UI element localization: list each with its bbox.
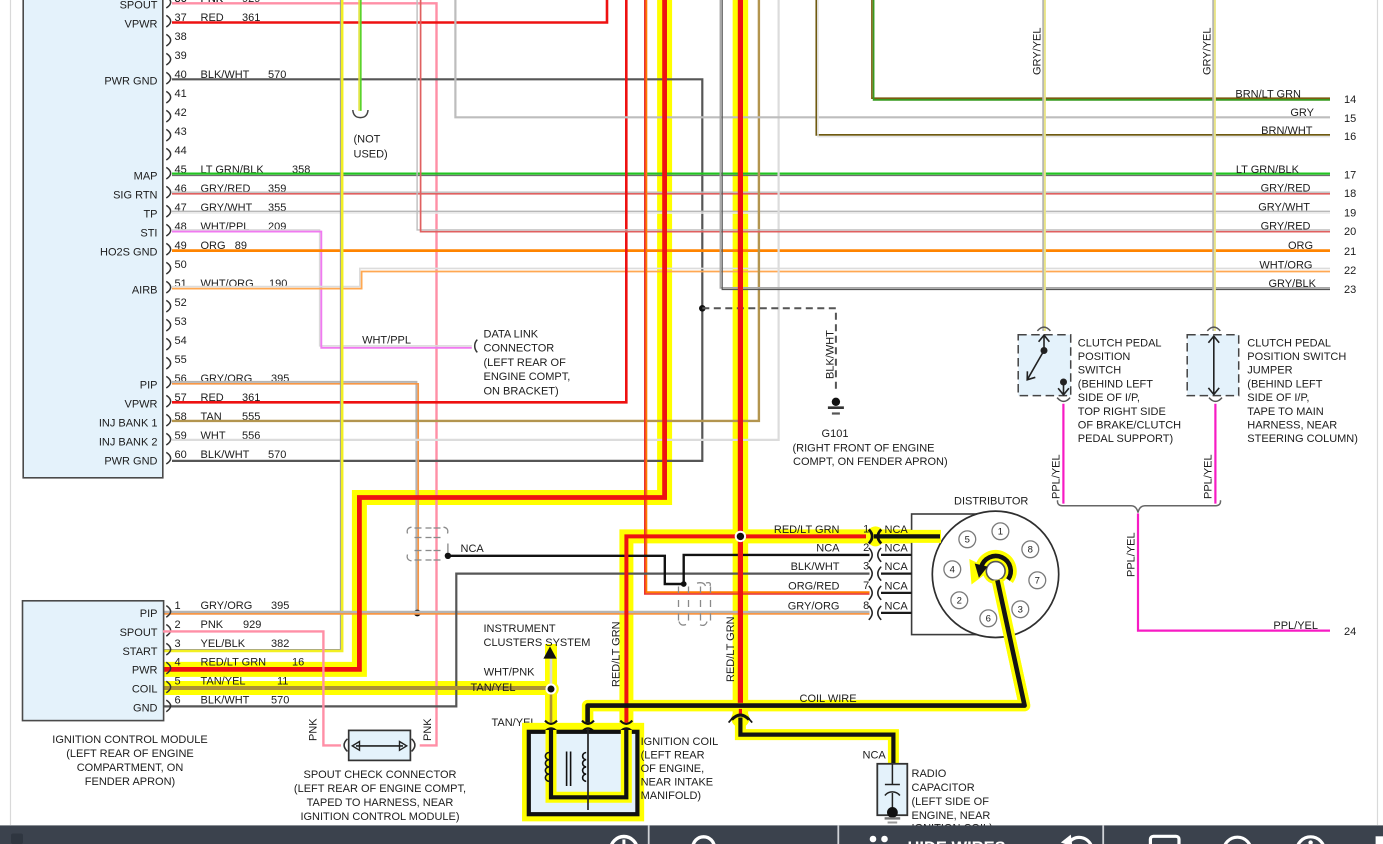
svg-text:GRY/RED: GRY/RED	[1261, 220, 1311, 232]
svg-text:COMPARTMENT, ON: COMPARTMENT, ON	[77, 762, 184, 774]
svg-text:OF ENGINE,: OF ENGINE,	[641, 763, 705, 775]
distributor pin1 bracket (bold)	[869, 529, 872, 543]
svg-text:BLK/WHT: BLK/WHT	[791, 561, 840, 573]
connector: ignition control module	[23, 601, 164, 721]
svg-text:570: 570	[271, 695, 289, 707]
wire ORG/RED (to distributor pin 7)	[645, 0, 870, 594]
svg-text:RED/LT GRN: RED/LT GRN	[611, 621, 623, 687]
wire GRY/YEL right (to clutch switch jumper)	[1212, 0, 1214, 331]
PCM pin name labels	[99, 0, 158, 467]
svg-text:15: 15	[1344, 113, 1356, 125]
exit cap below jumper	[1209, 398, 1222, 402]
right edge wire labels and numbers 14-23	[1235, 89, 1356, 296]
junction dot on B at pin1 net	[735, 531, 746, 542]
svg-text:(BEHIND LEFT: (BEHIND LEFT	[1247, 378, 1322, 390]
svg-text:COIL: COIL	[132, 684, 158, 696]
inline connector symbol (dashed) over ORG/RED and GRY/ORG rows	[679, 583, 711, 626]
svg-text:GND: GND	[133, 703, 158, 715]
svg-text:COIL WIRE: COIL WIRE	[800, 693, 857, 705]
wire TAN 555 (pin58, corner up x759)	[172, 0, 759, 421]
svg-text:WHT/PNK: WHT/PNK	[484, 667, 535, 679]
svg-text:NCA: NCA	[885, 561, 909, 573]
spout connector double arrow	[356, 745, 403, 747]
distributor cap circle	[932, 511, 1058, 637]
svg-text:PWR: PWR	[132, 665, 158, 677]
svg-text:PNK: PNK	[201, 0, 224, 5]
wire BLK/WHT dashed to G101	[702, 308, 836, 391]
svg-text:CLUSTERS SYSTEM: CLUSTERS SYSTEM	[484, 637, 591, 649]
svg-text:SPOUT: SPOUT	[120, 627, 158, 639]
svg-text:PPL/YEL: PPL/YEL	[1273, 620, 1318, 632]
svg-text:23: 23	[1344, 284, 1356, 296]
wire PPL/YEL from clutch switch	[1062, 404, 1064, 504]
svg-text:ORG/RED: ORG/RED	[788, 580, 839, 592]
svg-text:BLK/WHT: BLK/WHT	[825, 330, 837, 379]
svg-text:395: 395	[271, 600, 289, 612]
wire GRY/YEL left (to clutch pedal position switch)	[1042, 0, 1044, 331]
svg-text:5: 5	[175, 676, 181, 688]
clutch pedal position switch box	[1018, 335, 1070, 396]
svg-text:STI: STI	[140, 227, 157, 239]
wire RED/LT GRN core vertical B	[738, 0, 743, 703]
svg-text:55: 55	[175, 354, 187, 366]
svg-text:24: 24	[1344, 626, 1356, 638]
svg-text:FENDER APRON): FENDER APRON)	[85, 776, 175, 788]
coil wire core	[588, 580, 1025, 727]
toolbar wires icon dots	[870, 836, 877, 843]
svg-text:PPL/YEL: PPL/YEL	[1126, 532, 1138, 577]
highlight halo: coil-wire hop at capacitor tap	[731, 710, 749, 728]
svg-text:18: 18	[1344, 188, 1356, 200]
data link connector bracket	[475, 340, 478, 353]
wire GRY/BLK (edge 23)	[720, 0, 1330, 288]
svg-text:POSITION SWITCH: POSITION SWITCH	[1247, 351, 1346, 363]
svg-text:16: 16	[1344, 131, 1356, 143]
junction dot on NCA jog	[681, 581, 687, 587]
svg-text:39: 39	[175, 50, 187, 62]
ignition coil text	[641, 736, 719, 802]
svg-text:AIRB: AIRB	[132, 284, 158, 296]
clutch switch jumper text	[1247, 337, 1358, 445]
junction dot TAN/YEL / WHT/PNK	[546, 684, 557, 695]
svg-text:PPL/YEL: PPL/YEL	[1203, 454, 1215, 499]
radio capacitor text	[912, 768, 993, 835]
svg-text:GRY/ORG: GRY/ORG	[201, 600, 253, 612]
svg-text:16: 16	[292, 657, 304, 669]
ICM pin name labels	[120, 608, 158, 715]
coil secondary wire	[587, 728, 589, 810]
toolbar separators	[648, 825, 650, 844]
svg-text:CAPACITOR: CAPACITOR	[912, 782, 975, 794]
distributor pin brackets	[869, 548, 881, 620]
distributor body box	[912, 514, 996, 635]
svg-text:(LEFT REAR OF ENGINE: (LEFT REAR OF ENGINE	[66, 748, 194, 760]
junction dot BLK/WHT to G101	[699, 305, 706, 312]
svg-text:SIG RTN: SIG RTN	[113, 189, 157, 201]
distributor cap towers	[944, 523, 1046, 627]
svg-text:2: 2	[957, 596, 962, 607]
wire RED/LT GRN core (distributor pin1 net)	[626, 536, 866, 727]
svg-text:8: 8	[1028, 545, 1033, 556]
svg-text:RED/LT GRN: RED/LT GRN	[201, 657, 267, 669]
svg-text:PWR GND: PWR GND	[104, 75, 157, 87]
entry cap above jumper	[1207, 327, 1220, 331]
svg-text:NCA: NCA	[863, 750, 887, 762]
toolbar undo icon	[1067, 837, 1092, 844]
distributor pin labels	[774, 523, 908, 612]
wire TAN/YEL core (ICM pin5)	[163, 686, 551, 690]
instrument cluster arrow	[543, 646, 556, 658]
svg-text:SIDE OF I/P,: SIDE OF I/P,	[1078, 392, 1140, 404]
junction dot GRY/ORG	[414, 610, 421, 617]
svg-text:NCA: NCA	[885, 580, 909, 592]
svg-text:HIDE WIRES: HIDE WIRES	[908, 839, 1006, 844]
highlight halo: junction dot B	[732, 528, 748, 544]
SPOUT check connector text	[294, 769, 466, 823]
clutch switch text	[1078, 337, 1181, 445]
coil core bars	[566, 752, 568, 787]
highlight halo: RED/LT GRN vertical B x740	[733, 0, 749, 716]
diagram panel right edge line	[1377, 0, 1379, 825]
svg-text:50: 50	[175, 259, 187, 271]
svg-text:5: 5	[965, 535, 970, 546]
svg-text:21: 21	[1344, 246, 1356, 258]
svg-text:(LEFT REAR: (LEFT REAR	[641, 749, 705, 761]
svg-text:SWITCH: SWITCH	[1078, 365, 1121, 377]
wire LT GRN/YEL (not used)	[358, 0, 360, 111]
svg-text:TAPED TO HARNESS, NEAR: TAPED TO HARNESS, NEAR	[307, 797, 454, 809]
svg-text:SIDE OF I/P,: SIDE OF I/P,	[1247, 392, 1309, 404]
svg-text:G101: G101	[822, 428, 849, 440]
toolbar right edge fragment	[1376, 836, 1383, 844]
svg-text:TAN/YEL: TAN/YEL	[470, 682, 515, 694]
svg-text:GRY/YEL: GRY/YEL	[1202, 28, 1214, 76]
wire BRN/WHT (edge 16)	[816, 0, 1330, 135]
capacitor symbol	[885, 764, 900, 812]
wire BRN/LT GRN (edge 14)	[872, 0, 1330, 98]
svg-text:43: 43	[175, 126, 187, 138]
svg-text:3: 3	[175, 638, 181, 650]
svg-text:IGNITION COIL: IGNITION COIL	[641, 736, 719, 748]
svg-text:SPOUT CHECK CONNECTOR: SPOUT CHECK CONNECTOR	[303, 769, 456, 781]
svg-text:HO2S GND: HO2S GND	[100, 246, 158, 258]
rotor hub	[983, 558, 1009, 584]
svg-text:NEAR INTAKE: NEAR INTAKE	[641, 777, 714, 789]
svg-text:WHT/ORG: WHT/ORG	[1259, 259, 1312, 271]
wire GRY (edge 15)	[455, 0, 1330, 117]
svg-text:TP: TP	[143, 208, 157, 220]
svg-text:42: 42	[175, 107, 187, 119]
svg-text:IGNITION CONTROL MODULE: IGNITION CONTROL MODULE	[52, 734, 207, 746]
svg-text:44: 44	[175, 145, 187, 157]
wire RED 361 (pin37 VPWR, corner up x607)	[172, 0, 607, 23]
highlight halo: radio capacitor branch	[740, 712, 893, 765]
pin brackets and numbers, PCM connector pins 36-60	[166, 0, 186, 464]
entry cap above left switch	[1037, 327, 1050, 331]
svg-text:7: 7	[863, 580, 869, 592]
svg-text:COMPT, ON FENDER APRON): COMPT, ON FENDER APRON)	[793, 456, 948, 468]
svg-text:ENGINE COMPT,: ENGINE COMPT,	[484, 371, 571, 383]
distributor pin stubs	[881, 555, 912, 613]
svg-text:NCA: NCA	[885, 524, 909, 536]
svg-text:DATA LINK: DATA LINK	[484, 328, 539, 340]
svg-text:BLK/WHT: BLK/WHT	[201, 695, 250, 707]
highlight halo: distributor pin1 bracket	[867, 526, 885, 546]
wire BLK/WHT (ICM pin6 to distributor pin 3)	[163, 574, 870, 707]
svg-text:WHT/PPL: WHT/PPL	[362, 335, 411, 347]
svg-text:PEDAL SUPPORT): PEDAL SUPPORT)	[1078, 433, 1173, 445]
svg-text:4: 4	[175, 657, 181, 669]
svg-text:52: 52	[175, 297, 187, 309]
svg-text:PIP: PIP	[140, 379, 158, 391]
svg-text:570: 570	[268, 449, 286, 461]
rotor arrow halo wedge	[969, 559, 991, 585]
svg-text:PNK: PNK	[201, 619, 224, 631]
bottom toolbar	[0, 825, 1383, 844]
toolbar info icon	[1297, 837, 1325, 844]
svg-text:NCA: NCA	[885, 542, 909, 554]
svg-text:1: 1	[998, 527, 1003, 538]
NCA wire start stub and dot	[447, 544, 449, 553]
svg-text:TAN/YEL: TAN/YEL	[201, 676, 246, 688]
svg-text:929: 929	[243, 619, 261, 631]
wire GRY/RED 359 (pin46 to edge 18)	[172, 191, 1330, 193]
hop arc at capacitor tap	[732, 715, 749, 720]
svg-text:(BEHIND LEFT: (BEHIND LEFT	[1078, 378, 1153, 390]
wire PNK 929 (pin36 to SPOUT check connector right)	[172, 3, 437, 745]
svg-text:382: 382	[271, 638, 289, 650]
svg-text:NCA: NCA	[461, 543, 485, 555]
svg-text:(LEFT REAR OF ENGINE COMPT,: (LEFT REAR OF ENGINE COMPT,	[294, 783, 466, 795]
svg-text:36: 36	[175, 0, 187, 5]
svg-text:GRY/BLK: GRY/BLK	[1269, 278, 1317, 290]
svg-text:MAP: MAP	[134, 170, 158, 182]
svg-text:BRN/LT GRN: BRN/LT GRN	[1235, 89, 1301, 101]
svg-text:1: 1	[175, 600, 181, 612]
svg-text:CONNECTOR: CONNECTOR	[484, 343, 555, 355]
SPOUT check connector box	[349, 730, 411, 760]
exit cap below left switch	[1057, 398, 1070, 402]
coil entry connectors on top	[545, 721, 632, 732]
svg-text:NCA: NCA	[885, 600, 909, 612]
svg-text:2: 2	[175, 619, 181, 631]
svg-text:TOP RIGHT SIDE: TOP RIGHT SIDE	[1078, 406, 1166, 418]
wire ORG 89 (pin49 to edge 21)	[172, 249, 1330, 252]
svg-text:1: 1	[863, 523, 869, 535]
svg-text:19: 19	[1344, 207, 1356, 219]
svg-text:GRY/WHT: GRY/WHT	[1258, 202, 1310, 214]
wire YEL/BLK 382 (ICM pin3 up to top)	[163, 0, 340, 650]
jumper symbol (double arrow)	[1208, 336, 1219, 394]
wire WHT/PNK core	[550, 659, 553, 689]
svg-text:RADIO: RADIO	[912, 768, 947, 780]
svg-text:53: 53	[175, 316, 187, 328]
svg-text:PWR GND: PWR GND	[104, 455, 157, 467]
rotor arc (rotation arrow)	[981, 556, 1011, 580]
switch symbol inside	[1027, 335, 1069, 395]
wire GRY/ORG (ICM pin1 to distributor pin 8)	[163, 611, 870, 613]
ICM wire color texts	[201, 600, 305, 707]
coil primary circuit (TAN/YEL to RED/LT GRN)	[551, 728, 626, 797]
highlight halo: coil wire	[588, 580, 1025, 727]
PCM wire color and circuit number texts	[201, 0, 311, 461]
svg-text:JUMPER: JUMPER	[1247, 365, 1292, 377]
svg-text:(RIGHT FRONT OF ENGINE: (RIGHT FRONT OF ENGINE	[793, 442, 935, 454]
highlight halo: RED/LT GRN net A (vertical x664 + ICM pin4)	[163, 0, 665, 669]
svg-text:INJ BANK 2: INJ BANK 2	[99, 436, 158, 448]
svg-text:HARNESS, NEAR: HARNESS, NEAR	[1247, 420, 1337, 432]
svg-text:RED/LT GRN: RED/LT GRN	[774, 524, 840, 536]
svg-text:(LEFT SIDE OF: (LEFT SIDE OF	[912, 796, 990, 808]
rotor arc halo	[981, 556, 1011, 580]
svg-text:PNK: PNK	[422, 718, 434, 741]
svg-text:17: 17	[1344, 170, 1356, 182]
wire BLK/WHT 570 (pins 40+60, vertical x702)	[172, 79, 702, 461]
highlight halo: RED/LT GRN distributor pin1 net	[626, 536, 936, 727]
not-used end hook	[353, 110, 368, 118]
svg-text:22: 22	[1344, 265, 1356, 277]
ICM text block	[52, 734, 207, 788]
svg-text:STEERING COLUMN): STEERING COLUMN)	[1247, 433, 1358, 445]
ignition coil box	[529, 732, 638, 814]
toolbar icon circle 1	[611, 837, 638, 844]
distributor pin1 stub (highlighted)	[874, 534, 940, 538]
toolbar circle icon 3	[1224, 837, 1252, 844]
svg-text:CLUTCH PEDAL: CLUTCH PEDAL	[1247, 337, 1331, 349]
svg-text:6: 6	[175, 695, 181, 707]
coil secondary winding	[583, 753, 587, 782]
svg-text:PIP: PIP	[140, 608, 158, 620]
highlight halo: TAN/YEL ICM pin5 wire	[163, 681, 551, 695]
svg-text:SPOUT: SPOUT	[120, 0, 158, 11]
wire GRY/ORG 395 (pin56 down to junction x417)	[172, 382, 416, 612]
svg-text:INSTRUMENT: INSTRUMENT	[484, 623, 556, 635]
connector: PCM C1 (left, pins 36-60)	[23, 0, 163, 478]
toolbar left blob	[11, 834, 23, 844]
svg-text:4: 4	[950, 565, 955, 576]
coil wire diagonal halo (over distributor)	[997, 580, 1024, 706]
svg-text:PNK: PNK	[308, 718, 320, 741]
wire GRY/WHT 355 (pin47 to edge 19)	[172, 210, 1330, 212]
svg-text:VPWR: VPWR	[125, 18, 158, 30]
data link connector text	[484, 328, 571, 397]
wire WHT 556 (pin59, corner up x778.6)	[172, 0, 779, 440]
ground G101 symbol	[832, 398, 840, 406]
svg-text:LT GRN/BLK: LT GRN/BLK	[1236, 164, 1300, 176]
wire GRY/RED (edge 20)	[417, 0, 1330, 230]
svg-text:CLUTCH PEDAL: CLUTCH PEDAL	[1078, 337, 1162, 349]
svg-text:6: 6	[986, 614, 991, 625]
svg-text:41: 41	[175, 88, 187, 100]
svg-text:20: 20	[1344, 226, 1356, 238]
toolbar icon circle 2	[693, 837, 715, 844]
svg-text:OF BRAKE/CLUTCH: OF BRAKE/CLUTCH	[1078, 420, 1181, 432]
ICM pin brackets and numbers	[166, 600, 180, 712]
svg-text:IGNITION CONTROL MODULE): IGNITION CONTROL MODULE)	[300, 811, 459, 823]
svg-text:MANIFOLD): MANIFOLD)	[641, 790, 702, 802]
svg-text:TAPE TO MAIN: TAPE TO MAIN	[1247, 406, 1323, 418]
coil primary winding	[545, 753, 549, 782]
wire PPL/YEL from jumper	[1214, 404, 1216, 504]
coil primary circuit highlight	[551, 730, 626, 797]
wire PNK 929 (ICM pin2 to SPOUT check connector left)	[163, 631, 341, 745]
svg-text:(LEFT REAR OF: (LEFT REAR OF	[484, 357, 567, 369]
svg-text:GRY/ORG: GRY/ORG	[788, 600, 840, 612]
svg-text:GRY/YEL: GRY/YEL	[1032, 28, 1044, 76]
svg-text:RED/LT GRN: RED/LT GRN	[725, 616, 737, 682]
svg-text:54: 54	[175, 335, 187, 347]
svg-text:INJ BANK 1: INJ BANK 1	[99, 417, 158, 429]
wire WHT/PPL 209 (pin48 STI to data link connector)	[172, 230, 472, 346]
toolbar monitor icon	[1150, 836, 1179, 844]
svg-text:929: 929	[242, 0, 260, 5]
svg-text:ON BRACKET): ON BRACKET)	[484, 385, 559, 397]
ignition coil highlight outline	[526, 727, 641, 818]
svg-text:START: START	[122, 646, 157, 658]
distributor pin1 stub halo	[874, 530, 941, 543]
svg-text:DISTRIBUTOR: DISTRIBUTOR	[954, 496, 1028, 508]
svg-text:38: 38	[175, 31, 187, 43]
svg-text:7: 7	[1035, 576, 1040, 587]
svg-text:GRY/RED: GRY/RED	[1261, 183, 1311, 195]
capacitor ground dot and symbol	[887, 807, 898, 818]
svg-text:14: 14	[1344, 94, 1356, 106]
svg-text:USED): USED)	[354, 148, 388, 160]
svg-text:VPWR: VPWR	[125, 398, 158, 410]
wire LT GRN/BLK 358 (pin45 MAP to edge 17)	[172, 172, 1330, 174]
svg-text:PPL/YEL: PPL/YEL	[1051, 454, 1063, 499]
svg-text:3: 3	[863, 561, 869, 573]
red stub below coil wire at hop	[739, 709, 742, 715]
highlight halo: junction dot tan/yel	[543, 681, 559, 697]
svg-text:GRY: GRY	[1290, 107, 1314, 119]
svg-text:2: 2	[863, 542, 869, 554]
inline connector symbol (dashed) over GRY/ORG and PNK verticals	[407, 527, 448, 561]
spout connector brackets	[344, 739, 347, 752]
svg-text:(NOT: (NOT	[354, 134, 381, 146]
svg-text:NCA: NCA	[816, 542, 840, 554]
svg-text:11: 11	[277, 676, 288, 688]
wire PPL/YEL combined (to edge 24)	[1138, 513, 1330, 630]
harness brace joining PPL/YEL wires	[1057, 500, 1220, 512]
tan vertical below junction to coil	[550, 689, 553, 726]
clutch pedal position switch jumper box	[1187, 335, 1239, 396]
svg-text:POSITION: POSITION	[1078, 351, 1131, 363]
svg-text:ORG: ORG	[1288, 240, 1313, 252]
wire RED 361 (pin57 VPWR, corner up x626)	[172, 0, 626, 402]
wire NCA (to distributor pin 2, with jog)	[448, 555, 870, 584]
highlight halo: WHT/PNK + tan vertical at instrument cluster	[545, 644, 557, 726]
svg-text:ENGINE, NEAR: ENGINE, NEAR	[912, 810, 991, 822]
svg-text:8: 8	[863, 600, 869, 612]
svg-text:60: 60	[175, 449, 187, 461]
svg-text:BRN/WHT: BRN/WHT	[1261, 125, 1313, 137]
radio capacitor box	[877, 764, 907, 815]
svg-text:YEL/BLK: YEL/BLK	[201, 638, 246, 650]
diagram panel left edge line	[10, 0, 12, 825]
svg-text:3: 3	[1018, 605, 1023, 616]
wire WHT/ORG 190 (pin51, step up at x360, to edge 22)	[172, 268, 1330, 286]
wire RED/LT GRN 16 core (net A to ICM pin4)	[163, 0, 665, 669]
svg-text:BLK/WHT: BLK/WHT	[201, 449, 250, 461]
capacitor branch core	[740, 718, 893, 766]
